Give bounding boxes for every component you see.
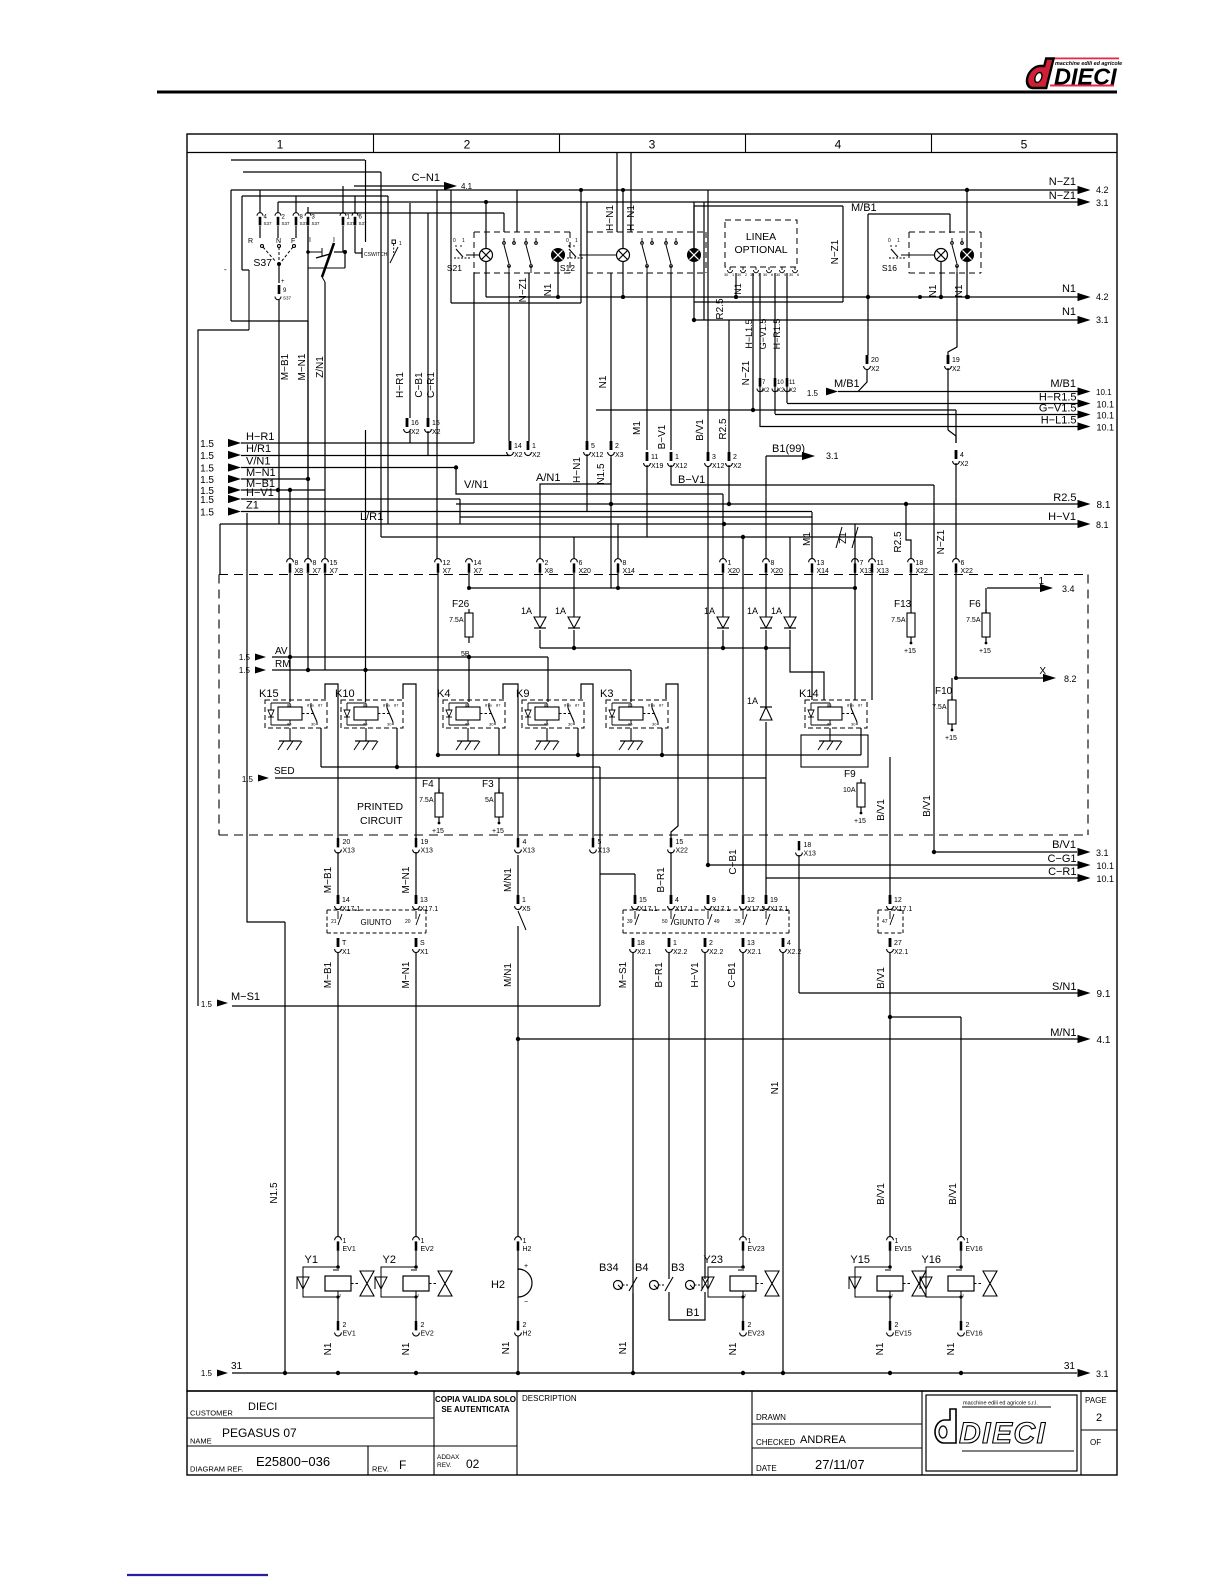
svg-text:85: 85 <box>628 722 633 727</box>
svg-text:N−Z1: N−Z1 <box>741 360 752 385</box>
svg-text:12: 12 <box>443 560 451 567</box>
svg-text:COPIA VALIDA SOLO: COPIA VALIDA SOLO <box>435 1395 516 1404</box>
svg-text:16: 16 <box>411 420 419 427</box>
svg-text:1: 1 <box>673 940 677 947</box>
svg-text:H−N1: H−N1 <box>572 457 583 483</box>
svg-text:9.1: 9.1 <box>1097 989 1111 1000</box>
svg-text:NAME: NAME <box>190 1437 212 1446</box>
svg-text:X22: X22 <box>676 848 689 855</box>
svg-text:2: 2 <box>421 1322 425 1329</box>
svg-text:B3: B3 <box>671 1262 684 1274</box>
svg-text:1.5: 1.5 <box>807 389 819 398</box>
svg-text:6: 6 <box>771 273 773 277</box>
svg-text:CIRCUIT: CIRCUIT <box>360 815 403 827</box>
svg-text:8: 8 <box>295 560 299 567</box>
svg-text:27/11/07: 27/11/07 <box>815 1457 865 1472</box>
svg-text:30: 30 <box>763 273 767 277</box>
svg-text:+15: +15 <box>945 735 957 742</box>
svg-text:M/N1: M/N1 <box>503 963 514 987</box>
svg-text:14: 14 <box>474 560 482 567</box>
svg-text:X3: X3 <box>615 452 624 459</box>
svg-text:9: 9 <box>712 897 716 904</box>
svg-text:10.1: 10.1 <box>1097 411 1115 421</box>
svg-text:X13: X13 <box>598 848 611 855</box>
svg-text:N1.5: N1.5 <box>269 1182 280 1204</box>
svg-text:1.5: 1.5 <box>200 439 214 450</box>
svg-text:N1: N1 <box>946 1342 957 1355</box>
svg-text:1.5: 1.5 <box>200 495 214 506</box>
svg-text:CSWITCH: CSWITCH <box>364 252 388 258</box>
svg-text:8.1: 8.1 <box>1097 500 1111 511</box>
svg-text:+15: +15 <box>492 828 504 835</box>
svg-text:87a: 87a <box>383 703 390 708</box>
svg-text:S21: S21 <box>447 263 462 273</box>
svg-text:1.5: 1.5 <box>239 666 251 675</box>
svg-text:1A: 1A <box>747 606 758 616</box>
svg-text:30: 30 <box>489 722 494 727</box>
svg-text:PAGE: PAGE <box>1085 1396 1107 1405</box>
svg-text:0: 0 <box>888 238 891 244</box>
svg-text:13: 13 <box>817 560 825 567</box>
svg-text:C−N1: C−N1 <box>412 172 440 184</box>
svg-text:10.1: 10.1 <box>1097 861 1115 871</box>
svg-text:S37: S37 <box>359 221 368 226</box>
svg-text:M−B1: M−B1 <box>323 961 334 988</box>
svg-text:S37: S37 <box>264 221 273 226</box>
svg-text:M1: M1 <box>632 421 643 435</box>
svg-text:B34: B34 <box>599 1262 619 1274</box>
svg-text:EV15: EV15 <box>895 1246 912 1253</box>
svg-text:S12: S12 <box>560 263 575 273</box>
svg-text:N1: N1 <box>1062 283 1076 295</box>
svg-text:S37: S37 <box>282 221 291 226</box>
svg-text:X1: X1 <box>420 949 429 956</box>
svg-text:35: 35 <box>735 919 741 925</box>
svg-text:3.1: 3.1 <box>826 451 839 461</box>
svg-text:macchine edili ed agricole s.r: macchine edili ed agricole s.r.l. <box>963 1401 1038 1407</box>
svg-text:30: 30 <box>737 273 741 277</box>
svg-text:7.5A: 7.5A <box>449 617 464 624</box>
svg-text:DIECI: DIECI <box>248 1401 277 1413</box>
svg-text:N1: N1 <box>501 1341 512 1354</box>
svg-text:10: 10 <box>777 380 784 386</box>
svg-text:T: T <box>342 940 347 947</box>
svg-text:C−G1: C−G1 <box>1047 853 1076 865</box>
svg-text:X2: X2 <box>762 388 770 394</box>
svg-text:8: 8 <box>623 560 627 567</box>
svg-text:X2: X2 <box>532 452 541 459</box>
svg-text:OPTIONAL: OPTIONAL <box>734 244 787 256</box>
svg-text:DIECI: DIECI <box>959 1417 1047 1450</box>
svg-text:EV1: EV1 <box>343 1331 356 1338</box>
svg-text:1.5: 1.5 <box>201 1000 213 1009</box>
svg-text:EV16: EV16 <box>966 1246 983 1253</box>
svg-text:N1: N1 <box>1062 306 1076 318</box>
svg-text:B−V1: B−V1 <box>678 474 705 486</box>
svg-text:87: 87 <box>496 703 501 708</box>
svg-text:11: 11 <box>877 560 884 567</box>
svg-text:PRINTED: PRINTED <box>357 801 404 813</box>
svg-text:X17.1: X17.1 <box>770 906 788 913</box>
svg-text:X2.1: X2.1 <box>747 949 762 956</box>
svg-text:R2.5: R2.5 <box>893 531 904 553</box>
svg-text:N−Z1: N−Z1 <box>1049 176 1076 188</box>
svg-text:6: 6 <box>961 560 965 567</box>
svg-text:S: S <box>420 940 425 947</box>
svg-text:F: F <box>291 238 295 245</box>
svg-text:4: 4 <box>960 452 964 459</box>
svg-text:10A: 10A <box>843 787 856 794</box>
svg-text:2: 2 <box>745 273 747 277</box>
svg-text:GIUNTO: GIUNTO <box>674 918 705 927</box>
svg-text:A/N1: A/N1 <box>536 472 560 484</box>
svg-text:M/N1: M/N1 <box>503 868 514 892</box>
svg-text:30: 30 <box>652 722 657 727</box>
svg-text:K3: K3 <box>600 688 613 700</box>
svg-text:V/N1: V/N1 <box>464 479 488 491</box>
svg-text:20: 20 <box>871 357 879 364</box>
svg-text:X2: X2 <box>952 366 961 373</box>
svg-text:1: 1 <box>277 138 284 152</box>
svg-text:Y16: Y16 <box>921 1254 941 1266</box>
svg-text:F6: F6 <box>969 599 981 610</box>
svg-text:N−Z1: N−Z1 <box>936 529 947 554</box>
svg-text:F10: F10 <box>935 686 953 697</box>
svg-text:R2.5: R2.5 <box>715 298 726 320</box>
svg-text:B1(99): B1(99) <box>772 443 805 455</box>
svg-text:8.2: 8.2 <box>1064 674 1077 684</box>
svg-text:N1: N1 <box>928 284 939 297</box>
svg-text:19: 19 <box>952 357 960 364</box>
svg-text:85: 85 <box>363 722 368 727</box>
svg-text:20: 20 <box>405 919 411 925</box>
svg-text:7: 7 <box>860 560 864 567</box>
svg-text:10.1: 10.1 <box>1097 423 1115 433</box>
svg-text:X17.1: X17.1 <box>712 906 730 913</box>
svg-text:B/V1: B/V1 <box>876 799 887 821</box>
svg-text:1A: 1A <box>771 606 782 616</box>
svg-text:R: R <box>248 238 253 245</box>
svg-text:B−R1: B−R1 <box>656 867 667 893</box>
svg-text:M/B1: M/B1 <box>851 202 877 214</box>
svg-text:B/V1: B/V1 <box>922 795 933 817</box>
svg-text:R2.5: R2.5 <box>718 418 729 440</box>
svg-text:20: 20 <box>343 839 351 846</box>
svg-text:X17.1: X17.1 <box>894 906 912 913</box>
svg-text:ADDAX: ADDAX <box>437 1454 460 1461</box>
svg-text:10.1: 10.1 <box>1097 874 1115 884</box>
svg-text:15: 15 <box>432 420 440 427</box>
svg-text:0: 0 <box>453 238 456 244</box>
svg-text:1A: 1A <box>704 606 715 616</box>
svg-text:4: 4 <box>675 897 679 904</box>
svg-text:1.5: 1.5 <box>200 475 214 486</box>
svg-text:1.5: 1.5 <box>200 508 214 519</box>
svg-text:H/R1: H/R1 <box>246 443 271 455</box>
svg-text:-: - <box>224 265 227 274</box>
svg-text:30: 30 <box>568 722 573 727</box>
svg-text:1.5: 1.5 <box>201 1369 213 1378</box>
svg-text:19: 19 <box>421 839 429 846</box>
svg-text:87a: 87a <box>564 703 571 708</box>
svg-text:12: 12 <box>747 897 755 904</box>
svg-text:Z1: Z1 <box>246 500 259 512</box>
svg-text:DATE: DATE <box>756 1464 777 1473</box>
svg-text:8.1: 8.1 <box>1096 520 1109 530</box>
svg-text:87: 87 <box>318 703 323 708</box>
svg-text:SED: SED <box>274 766 295 777</box>
svg-text:3: 3 <box>649 138 656 152</box>
svg-text:K15: K15 <box>259 688 279 700</box>
svg-text:39: 39 <box>627 919 633 925</box>
svg-text:F13: F13 <box>894 599 912 610</box>
svg-text:N1: N1 <box>875 1342 886 1355</box>
svg-text:21: 21 <box>331 919 337 925</box>
svg-text:H−R1: H−R1 <box>395 372 406 398</box>
svg-text:7.5A: 7.5A <box>932 704 947 711</box>
svg-text:6: 6 <box>797 273 799 277</box>
svg-text:K14: K14 <box>799 688 819 700</box>
svg-text:0: 0 <box>566 238 569 244</box>
svg-text:EV23: EV23 <box>748 1246 765 1253</box>
svg-text:I: I <box>333 237 335 244</box>
svg-text:X2.2: X2.2 <box>673 949 688 956</box>
svg-text:1: 1 <box>748 1238 752 1245</box>
svg-text:10.1: 10.1 <box>1097 400 1115 410</box>
svg-text:N−Z1: N−Z1 <box>1049 190 1076 202</box>
svg-text:2: 2 <box>748 1322 752 1329</box>
svg-text:6: 6 <box>579 560 583 567</box>
svg-text:X12: X12 <box>712 463 725 470</box>
svg-text:X19: X19 <box>651 463 664 470</box>
svg-text:Y2: Y2 <box>383 1254 396 1266</box>
svg-text:2: 2 <box>464 138 471 152</box>
svg-text:31: 31 <box>231 1361 243 1372</box>
svg-text:CHECKED: CHECKED <box>756 1438 795 1447</box>
svg-text:30: 30 <box>311 722 316 727</box>
svg-text:7.5A: 7.5A <box>419 797 434 804</box>
svg-text:F3: F3 <box>482 779 494 790</box>
svg-text:Y1: Y1 <box>305 1254 318 1266</box>
svg-text:87a: 87a <box>485 703 492 708</box>
svg-text:C−R1: C−R1 <box>426 372 437 398</box>
svg-text:M−B1: M−B1 <box>280 353 291 380</box>
svg-text:H2: H2 <box>491 1279 505 1291</box>
svg-text:B/V1: B/V1 <box>695 419 706 441</box>
svg-text:N1: N1 <box>770 1081 781 1094</box>
svg-text:X2.2: X2.2 <box>787 949 802 956</box>
svg-text:X2: X2 <box>432 429 441 436</box>
svg-text:18: 18 <box>916 560 924 567</box>
svg-text:7.5A: 7.5A <box>891 617 906 624</box>
svg-text:C−R1: C−R1 <box>1048 866 1076 878</box>
svg-text:N1: N1 <box>954 284 965 297</box>
svg-text:X12: X12 <box>675 463 688 470</box>
svg-text:ANDREA: ANDREA <box>800 1434 847 1446</box>
svg-text:DRAWN: DRAWN <box>756 1413 786 1422</box>
svg-text:87a: 87a <box>648 703 655 708</box>
svg-text:H−V1: H−V1 <box>246 487 274 499</box>
svg-text:12: 12 <box>894 897 902 904</box>
svg-text:4: 4 <box>835 138 842 152</box>
svg-text:+15: +15 <box>854 818 866 825</box>
svg-text:X13: X13 <box>523 848 536 855</box>
svg-text:Y23: Y23 <box>703 1254 723 1266</box>
svg-text:X2.1: X2.1 <box>894 949 909 956</box>
svg-text:5: 5 <box>1021 138 1028 152</box>
svg-text:2: 2 <box>733 454 737 461</box>
svg-text:F4: F4 <box>422 779 434 790</box>
svg-text:Z/N1: Z/N1 <box>315 356 326 378</box>
svg-text:4: 4 <box>523 839 527 846</box>
svg-text:27: 27 <box>894 940 902 947</box>
svg-text:B1: B1 <box>686 1307 699 1319</box>
svg-text:2: 2 <box>343 1322 347 1329</box>
svg-text:2: 2 <box>709 940 713 947</box>
svg-text:87: 87 <box>858 703 863 708</box>
svg-text:4: 4 <box>787 940 791 947</box>
svg-text:X12: X12 <box>591 452 604 459</box>
svg-text:X13: X13 <box>804 851 817 858</box>
svg-text:LINEA: LINEA <box>746 231 776 243</box>
svg-text:EV23: EV23 <box>748 1331 765 1338</box>
svg-text:M1: M1 <box>802 532 813 546</box>
svg-text:H2: H2 <box>523 1246 532 1253</box>
svg-text:N1: N1 <box>728 1342 739 1355</box>
svg-text:X17.1: X17.1 <box>342 906 360 913</box>
svg-text:X2: X2 <box>960 461 969 468</box>
svg-text:Y15: Y15 <box>850 1254 870 1266</box>
svg-text:M−N1: M−N1 <box>401 961 412 988</box>
svg-text:7.5A: 7.5A <box>966 617 981 624</box>
svg-text:15: 15 <box>639 897 647 904</box>
svg-text:86: 86 <box>628 703 633 708</box>
svg-text:+15: +15 <box>979 648 991 655</box>
svg-text:3.4: 3.4 <box>1062 584 1075 594</box>
svg-text:B/V1: B/V1 <box>876 1183 887 1205</box>
svg-text:S37: S37 <box>283 296 292 301</box>
svg-text:1: 1 <box>523 1238 527 1245</box>
svg-text:1: 1 <box>421 1238 425 1245</box>
svg-text:30: 30 <box>387 722 392 727</box>
svg-text:H−R1: H−R1 <box>246 431 274 443</box>
svg-text:30: 30 <box>851 722 856 727</box>
svg-text:B−R1: B−R1 <box>654 962 665 988</box>
svg-text:REV.: REV. <box>372 1465 389 1474</box>
svg-text:M−N1: M−N1 <box>401 866 412 893</box>
svg-text:+: + <box>281 279 285 285</box>
svg-text:5: 5 <box>784 273 786 277</box>
svg-text:X17.1: X17.1 <box>675 906 693 913</box>
svg-text:N: N <box>276 238 281 245</box>
svg-text:V/N1: V/N1 <box>246 456 270 468</box>
svg-text:CUSTOMER: CUSTOMER <box>190 1409 233 1418</box>
svg-text:X2: X2 <box>411 429 420 436</box>
svg-text:F: F <box>399 1458 406 1472</box>
svg-text:REV.: REV. <box>437 1462 452 1469</box>
svg-text:86: 86 <box>465 703 470 708</box>
svg-text:M/B1: M/B1 <box>834 378 860 390</box>
svg-text:1A: 1A <box>747 696 758 706</box>
svg-text:X13: X13 <box>343 848 356 855</box>
svg-text:1: 1 <box>575 238 578 244</box>
svg-text:14: 14 <box>342 897 350 904</box>
svg-text:10.1: 10.1 <box>1096 388 1112 397</box>
svg-text:C−B1: C−B1 <box>728 849 739 875</box>
svg-text:13: 13 <box>747 940 755 947</box>
svg-text:86: 86 <box>544 703 549 708</box>
svg-text:N1: N1 <box>543 283 554 296</box>
svg-text:X2: X2 <box>733 463 742 470</box>
svg-text:C−B1: C−B1 <box>727 962 738 988</box>
svg-text:15: 15 <box>330 560 338 567</box>
svg-text:4.2: 4.2 <box>1096 185 1109 195</box>
svg-text:B4: B4 <box>635 1262 648 1274</box>
svg-text:M/B1: M/B1 <box>1050 378 1076 390</box>
svg-text:11: 11 <box>651 454 658 461</box>
svg-text:86: 86 <box>363 703 368 708</box>
svg-text:EV1: EV1 <box>343 1246 356 1253</box>
svg-text:85: 85 <box>287 722 292 727</box>
svg-text:3.1: 3.1 <box>1096 198 1109 208</box>
svg-text:F26: F26 <box>452 599 470 610</box>
svg-text:85: 85 <box>544 722 549 727</box>
svg-text:1.5: 1.5 <box>242 775 254 784</box>
svg-text:M−N1: M−N1 <box>297 353 308 380</box>
svg-text:87a: 87a <box>847 703 854 708</box>
svg-text:1A: 1A <box>521 606 532 616</box>
svg-text:M/N1: M/N1 <box>1050 1027 1076 1039</box>
svg-text:1: 1 <box>532 443 536 450</box>
svg-text:EV15: EV15 <box>895 1331 912 1338</box>
svg-text:OF: OF <box>1090 1438 1101 1447</box>
svg-text:G−V1.5: G−V1.5 <box>1039 403 1077 415</box>
svg-text:R2.5: R2.5 <box>1053 492 1076 504</box>
svg-text:H2: H2 <box>523 1331 532 1338</box>
svg-text:49: 49 <box>714 919 720 925</box>
svg-text:13: 13 <box>420 897 428 904</box>
svg-text:C−B1: C−B1 <box>414 372 425 398</box>
svg-text:S37: S37 <box>253 257 272 269</box>
svg-text:85: 85 <box>465 722 470 727</box>
svg-text:1: 1 <box>728 560 732 567</box>
svg-text:1: 1 <box>966 1238 970 1245</box>
svg-text:+15: +15 <box>432 828 444 835</box>
svg-text:−: − <box>524 1299 528 1306</box>
svg-text:H−V1: H−V1 <box>1048 511 1076 523</box>
svg-text:M−B1: M−B1 <box>323 866 334 893</box>
svg-text:1: 1 <box>522 897 526 904</box>
svg-text:5A: 5A <box>485 797 494 804</box>
svg-text:N1: N1 <box>733 283 743 295</box>
svg-text:1: 1 <box>343 1238 347 1245</box>
svg-text:K4: K4 <box>437 688 450 700</box>
svg-text:X2: X2 <box>514 452 523 459</box>
svg-text:87: 87 <box>575 703 580 708</box>
svg-text:5: 5 <box>591 443 595 450</box>
svg-text:B/V1: B/V1 <box>876 967 887 989</box>
svg-text:B/V1: B/V1 <box>948 1183 959 1205</box>
svg-text:M−S1: M−S1 <box>231 991 260 1003</box>
svg-text:02: 02 <box>466 1457 480 1471</box>
svg-text:87: 87 <box>659 703 664 708</box>
svg-text:1A: 1A <box>555 606 566 616</box>
svg-text:X: X <box>1039 666 1046 677</box>
svg-text:86: 86 <box>287 703 292 708</box>
svg-text:S/N1: S/N1 <box>1052 981 1076 993</box>
svg-text:1: 1 <box>897 238 900 244</box>
svg-text:1: 1 <box>399 241 402 247</box>
